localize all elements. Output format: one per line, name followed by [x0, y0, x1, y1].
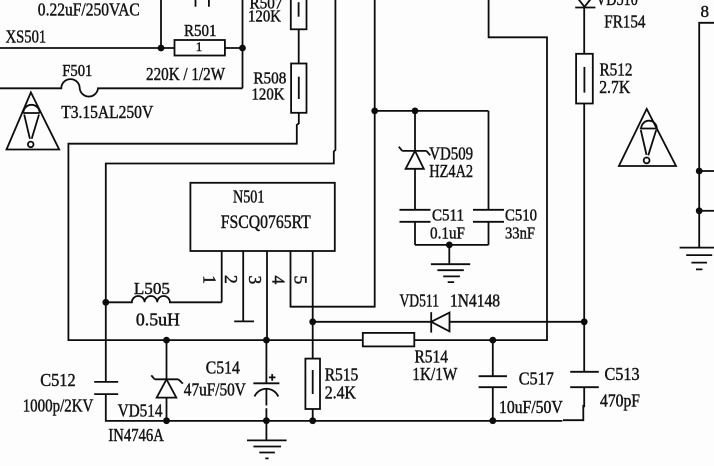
svg-text:220K / 1/2W: 220K / 1/2W — [146, 64, 225, 84]
pin 2 with termination bar — [234, 251, 254, 321]
svg-text:33nF: 33nF — [505, 224, 535, 243]
junction pin5 / VD511 — [309, 318, 316, 325]
hot-ground warning triangle left — [7, 92, 60, 149]
svg-text:C514: C514 — [206, 358, 240, 378]
svg-text:R501: R501 — [184, 21, 217, 40]
resistor R512 — [576, 54, 632, 104]
junction R515 bottom — [309, 417, 316, 424]
svg-text:2.4K: 2.4K — [325, 383, 357, 403]
pin 4 wire to right vertical — [291, 0, 375, 307]
junction C514 bottom — [263, 417, 270, 424]
svg-text:1: 1 — [196, 39, 203, 54]
svg-text:0.5uH: 0.5uH — [136, 310, 180, 330]
capacitor C510 33nF — [473, 111, 537, 245]
wire stub right rail lower — [699, 210, 714, 212]
component leads cut at top edge — [196, 0, 209, 7]
wire R515 bottom — [312, 409, 314, 421]
wire C511/C510 common to ground — [415, 244, 489, 246]
junction ground node — [446, 242, 453, 249]
ground under C514 — [247, 421, 287, 459]
junction pin4 vertical — [371, 108, 378, 115]
junction C517 bottom — [489, 417, 496, 424]
capacitor C517 10uF/50V — [479, 340, 563, 421]
diode VD510 FR154 (cut at top) — [575, 0, 646, 54]
capacitor C511 0.1uF — [400, 206, 466, 245]
svg-text:C513: C513 — [605, 364, 640, 384]
svg-text:1K/1W: 1K/1W — [412, 364, 457, 384]
svg-text:VD511: VD511 — [400, 291, 440, 311]
svg-text:IN4746A: IN4746A — [108, 425, 164, 445]
svg-text:4: 4 — [268, 276, 288, 285]
svg-text:2.7K: 2.7K — [599, 77, 630, 97]
svg-text:8: 8 — [701, 2, 710, 21]
svg-text:120K: 120K — [252, 85, 286, 104]
resistor R501 — [146, 21, 225, 84]
svg-text:T3.15AL250V: T3.15AL250V — [61, 102, 153, 122]
zener diode VD509 HZ4A2 — [399, 111, 474, 210]
junction VD511 right / R512 column — [581, 318, 588, 325]
svg-text:5: 5 — [291, 276, 311, 285]
svg-text:XS501: XS501 — [6, 27, 47, 47]
junction R501 right — [239, 45, 246, 52]
svg-text:VD510: VD510 — [596, 0, 638, 9]
svg-text:C512: C512 — [40, 370, 75, 390]
diode VD511 1N4148 — [313, 291, 585, 333]
svg-text:0.1uF: 0.1uF — [430, 224, 465, 243]
svg-text:VD514: VD514 — [118, 401, 163, 421]
inductor L505 — [106, 279, 222, 330]
svg-text:FSCQ0765RT: FSCQ0765RT — [221, 212, 311, 233]
wire R512 bottom to VD511 row and C513 — [583, 104, 585, 322]
svg-text:FR154: FR154 — [604, 12, 645, 32]
capacitor C512 — [23, 370, 119, 416]
svg-text:0.22uF/250VAC: 0.22uF/250VAC — [38, 0, 140, 20]
junction VD514 bottom — [163, 417, 170, 424]
ground under C511 — [431, 245, 470, 282]
svg-text:47uF/50V: 47uF/50V — [184, 380, 246, 400]
wire R508 bottom down-left and rail to R514 — [68, 113, 362, 340]
svg-text:F501: F501 — [62, 61, 92, 80]
wire snubber line from top to L505 node and C512 — [106, 0, 336, 382]
junction right rail lower — [696, 207, 703, 214]
svg-text:1: 1 — [200, 275, 220, 284]
svg-text:C510: C510 — [505, 206, 537, 225]
svg-text:HZ4A2: HZ4A2 — [429, 161, 473, 181]
svg-text:N501: N501 — [233, 186, 264, 206]
wire C512 bottom / ground rail — [106, 394, 563, 421]
pin 5 down to R515 — [312, 251, 314, 359]
wire R501 right — [225, 47, 243, 49]
capacitor C514 47uF/50V — [184, 340, 280, 421]
svg-text:1000p/2KV: 1000p/2KV — [23, 396, 94, 416]
svg-text:R515: R515 — [325, 365, 359, 385]
wire vertical from top through R501 right junction to fuse row — [242, 0, 244, 88]
svg-text:3: 3 — [245, 276, 265, 285]
resistor R515 — [305, 359, 358, 409]
svg-text:10uF/50V: 10uF/50V — [499, 397, 563, 417]
wire R507 to R508 — [298, 29, 300, 63]
svg-text:120K: 120K — [248, 7, 282, 26]
junction R514/C517 — [489, 337, 496, 344]
svg-text:L505: L505 — [134, 279, 170, 298]
wire R514 right to corner column — [414, 0, 547, 340]
svg-text:C517: C517 — [519, 369, 554, 389]
junction C514 top — [263, 337, 270, 344]
junction VD509 top — [412, 108, 419, 115]
resistor R508 — [252, 64, 307, 113]
pin 1 — [221, 251, 223, 302]
fuse F501 — [0, 61, 243, 122]
svg-text:1N4148: 1N4148 — [450, 291, 500, 311]
wire XS501 row — [0, 47, 175, 49]
ground right rail — [680, 248, 714, 270]
svg-text:2: 2 — [221, 275, 241, 284]
junction VD514 top — [163, 337, 170, 344]
junction at C-lead / XS501 wire — [158, 45, 165, 52]
svg-text:470pF: 470pF — [600, 391, 640, 411]
pin 3 — [266, 251, 268, 340]
resistor R507 (cut at top) — [248, 0, 307, 29]
wire right rail from pin 8 — [699, 23, 714, 248]
svg-text:C511: C511 — [432, 206, 464, 225]
capacitor C513 470pF — [563, 322, 640, 420]
capacitor 0.22uF/250VAC lead — [160, 0, 162, 48]
junction right rail upper — [696, 168, 703, 175]
junction L505 left — [102, 299, 109, 306]
hot-ground warning triangle right — [619, 109, 676, 166]
zener diode VD514 IN4746A — [108, 340, 182, 445]
IC N501 FSCQ0765RT — [190, 183, 334, 251]
wire stub right rail upper — [699, 170, 714, 172]
wire pin4 node to VD509/C510 branch — [375, 110, 489, 112]
resistor R514 — [363, 333, 458, 384]
